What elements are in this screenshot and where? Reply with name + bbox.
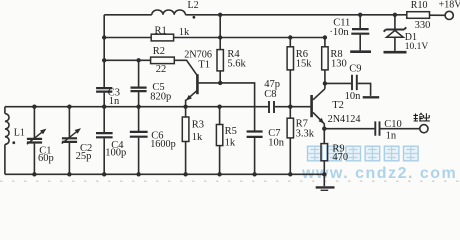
ground symbol at D1 [384, 51, 407, 54]
zener diode D1 anode triangle [387, 30, 404, 37]
svg-text:C9: C9 [349, 64, 361, 75]
svg-text:R1: R1 [155, 26, 167, 37]
wire R4 bottom lead [219, 71, 221, 83]
svg-text:1n: 1n [386, 130, 397, 141]
variable capacitor C1 [27, 139, 42, 143]
svg-text:60p: 60p [38, 153, 54, 164]
svg-text:1n: 1n [109, 96, 120, 107]
svg-text:R5: R5 [225, 126, 237, 137]
capacitor C4 [96, 133, 113, 137]
resistor R8 [322, 47, 328, 70]
wire vertical link top rail to R1 row [219, 15, 221, 38]
T1 emitter lead [186, 90, 198, 107]
svg-text:1k: 1k [225, 137, 236, 148]
resistor R9 [321, 144, 328, 161]
ground symbol below R9 [316, 187, 335, 190]
svg-text:25p: 25p [76, 151, 92, 162]
wire C5-C6 branch middle [138, 92, 140, 131]
wire top supply rail right segment [185, 14, 406, 16]
resistor R7 [287, 118, 293, 138]
wire C2 branch lower [68, 143, 70, 174]
T2 emitter lead [313, 112, 324, 128]
svg-text:·10n: ·10n [329, 27, 349, 38]
node mid rail / C3-C4 junction [102, 105, 106, 109]
node T2 base / R6 R7 junction [288, 105, 292, 109]
node top rail / x220 junction [218, 13, 222, 17]
svg-text:R2: R2 [153, 46, 165, 57]
wire R10 to +18V terminal [430, 14, 446, 16]
wire R7 top lead [289, 107, 291, 119]
svg-text:330: 330 [415, 20, 431, 31]
scan fold line bottom [0, 180, 460, 182]
svg-text:L2: L2 [188, 0, 199, 11]
wire C10 to output terminal [380, 128, 419, 130]
C1 arrowhead [40, 129, 46, 135]
node bottom rail / R7 [288, 172, 292, 176]
node mid rail / T1 emitter R3 junction [183, 105, 187, 109]
wire R9 ground stub [323, 174, 325, 186]
svg-text:820p: 820p [150, 91, 171, 102]
wire R9 bottom lead [323, 161, 325, 175]
wire R6 bottom lead [289, 70, 291, 107]
svg-text:15k: 15k [296, 58, 313, 69]
svg-text:R3: R3 [192, 119, 204, 130]
wire R5 top lead [219, 107, 221, 125]
node bottom rail / C2 [67, 172, 71, 176]
C2 arrow [62, 131, 78, 144]
wire R2 row left lead [104, 59, 150, 61]
capacitor C8 [269, 101, 274, 113]
resistor R5 [216, 125, 222, 146]
node bottom rail / C7 [252, 172, 256, 176]
L1 polarity dot [12, 141, 15, 144]
svg-text:10.1V: 10.1V [405, 42, 429, 52]
terminal output circle [420, 125, 428, 133]
resistor R3 [182, 117, 189, 142]
wire T2 collector to C9 [325, 82, 351, 84]
wire R8 bottom lead [324, 70, 326, 89]
capacitor C11 [351, 29, 369, 34]
wire C11 bottom lead [359, 35, 361, 51]
svg-text:1600p: 1600p [150, 139, 175, 150]
capacitor C5 [131, 88, 147, 92]
C2 arrowhead [75, 128, 81, 134]
capacitor C6 [130, 132, 148, 137]
L2 polarity dot [193, 16, 196, 19]
node R1 row / R6 junction [288, 35, 292, 39]
wire top supply rail left segment [104, 14, 152, 16]
node mid rail / C1 junction [32, 105, 36, 109]
svg-text:L1: L1 [14, 127, 25, 138]
inductor L2 [152, 10, 186, 15]
node R1 row / R8 junction [323, 35, 327, 39]
svg-text:470: 470 [332, 152, 348, 163]
wire left rail C3 to mid [103, 93, 105, 133]
resistor R1 [151, 34, 173, 41]
wire R3 bottom lead [185, 142, 187, 175]
wire R1 row left lead [104, 37, 151, 39]
node bottom rail / R5 [217, 172, 221, 176]
wire C7 bottom lead [254, 138, 256, 174]
node T2 collector / C9 junction [323, 81, 327, 85]
node mid rail / C2 junction [67, 105, 71, 109]
wire collector jog to C7/C8 branch [220, 83, 254, 131]
node R2 row / left rail junction [102, 58, 106, 62]
node R2 row / C5 junction [136, 58, 140, 62]
node bottom rail / R3 [183, 172, 187, 176]
svg-text:R10: R10 [411, 0, 428, 11]
wire C5-C6 branch lower [138, 138, 140, 175]
svg-text:10n: 10n [345, 91, 362, 102]
node bottom rail / C6 [136, 172, 140, 176]
wire R4 top lead [219, 38, 221, 50]
C1 arrow [27, 131, 43, 144]
svg-text:5.6k: 5.6k [227, 58, 246, 69]
wire main mid rail (tank to C8) [5, 106, 268, 108]
svg-text:3.3k: 3.3k [296, 128, 315, 139]
wire C1 branch upper [33, 107, 35, 138]
node T1 collector junction [218, 81, 222, 85]
node bottom rail / R9 [322, 172, 326, 176]
resistor R10 [407, 12, 430, 19]
node R1 row / left rail junction [102, 35, 106, 39]
svg-text:130: 130 [331, 58, 347, 69]
wire C2 branch upper [68, 107, 70, 138]
node mid rail / C5-C6 junction [136, 105, 140, 109]
wire R5 bottom lead [219, 146, 221, 175]
wire D1 top lead [394, 15, 396, 29]
svg-text:+18V: +18V [439, 0, 460, 10]
wire bottom rail [5, 173, 324, 175]
wire R9 top lead [323, 129, 325, 144]
node top rail / C11 junction [358, 13, 362, 17]
T2 collector lead [313, 89, 325, 100]
inductor L1 [5, 114, 9, 145]
capacitor C9 [352, 75, 357, 90]
svg-text:1k: 1k [192, 132, 203, 143]
T1 emitter arrowhead [186, 95, 192, 101]
svg-text:1k: 1k [179, 27, 190, 38]
wire C8 to T2 base [275, 106, 311, 108]
variable capacitor C2 [62, 138, 77, 142]
resistor R6 [287, 47, 293, 70]
wire R1 row right segment [174, 37, 325, 39]
svg-text:22: 22 [156, 64, 167, 75]
wire R6 top lead [289, 38, 291, 47]
capacitor C3 [96, 88, 112, 92]
wire C5 branch upper [138, 60, 140, 86]
node T2 emitter junction [322, 127, 326, 131]
svg-text:2N4124: 2N4124 [328, 114, 361, 125]
wire tank left lower [4, 144, 6, 174]
wire left rail upper [103, 15, 105, 87]
transistor T2 base bar [310, 95, 313, 117]
node bottom rail / left rail [102, 172, 106, 176]
wire T2 emitter to C10 [324, 128, 374, 130]
wire R7 bottom lead [289, 138, 291, 174]
wire D1 bottom lead [394, 37, 396, 51]
watermark line1 (dianzi dianlu tuzhan) [308, 146, 419, 161]
resistor R2 [151, 57, 175, 64]
wire C9 to ground [358, 83, 371, 96]
terminal +18V circle [445, 11, 453, 19]
svg-text:C8: C8 [264, 89, 276, 100]
svg-text:T2: T2 [332, 100, 344, 111]
zener diode D1 cathode bar [384, 27, 407, 31]
wire tank top left corner [4, 107, 6, 114]
ground symbol at C9 [363, 96, 380, 98]
transistor T1 base bar [196, 74, 199, 94]
wire left rail lower [103, 138, 105, 174]
capacitor C7 [247, 132, 263, 137]
wire C1 branch lower [33, 144, 35, 175]
wire R3 top lead [185, 107, 187, 117]
resistor R4 [217, 50, 223, 71]
node bottom rail / C1 [32, 172, 36, 176]
svg-text:10n: 10n [268, 138, 285, 149]
ground symbol at C11 [350, 50, 371, 53]
node top rail / D1 junction [393, 13, 397, 17]
node R1 row / x220 junction [218, 35, 222, 39]
svg-text:100p: 100p [105, 148, 126, 159]
wire C11 top lead [359, 15, 361, 28]
wire R2 to T1 base [174, 60, 197, 75]
node mid rail / R5 junction [217, 105, 221, 109]
wire R8 top lead [324, 38, 326, 47]
wire T1 collector lead [199, 82, 221, 84]
capacitor C10 [375, 121, 379, 135]
svg-text:T1: T1 [198, 59, 210, 70]
label output (shuchu) [413, 113, 429, 121]
T2 emitter arrowhead [319, 118, 325, 124]
